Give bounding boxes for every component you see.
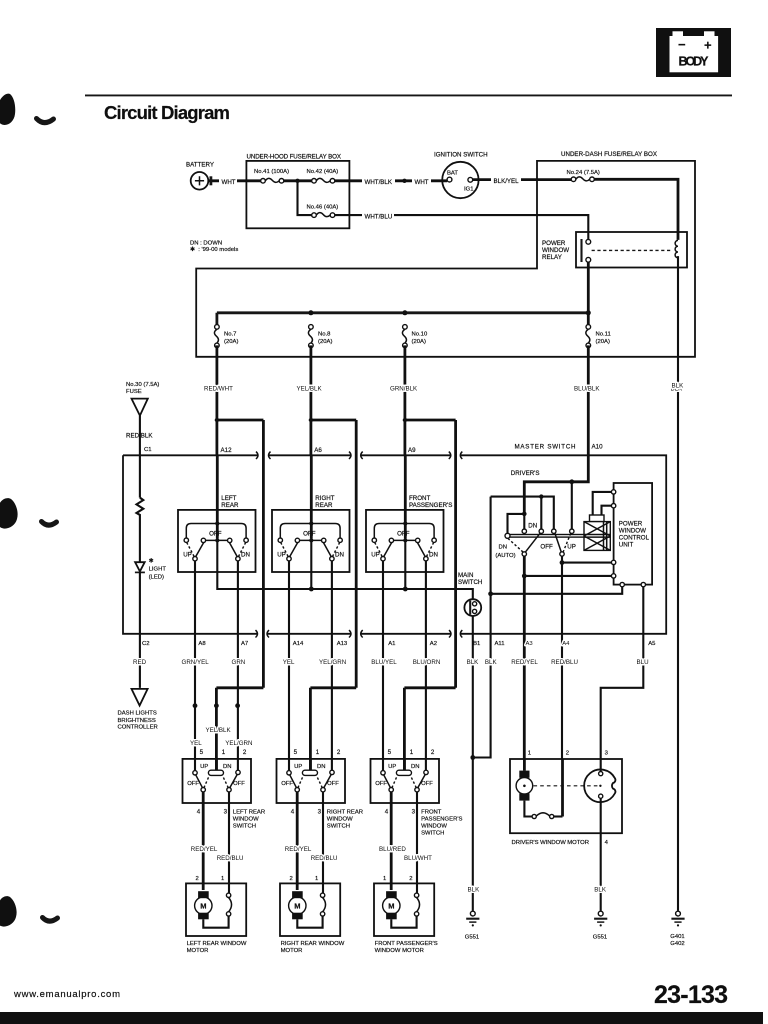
svg-text:REAR: REAR: [315, 502, 333, 509]
svg-text:POWER: POWER: [619, 521, 643, 528]
svg-text:C2: C2: [142, 641, 150, 647]
svg-text:A7: A7: [241, 641, 248, 647]
svg-text:2: 2: [196, 876, 199, 882]
svg-text:RED/YEL: RED/YEL: [285, 846, 312, 853]
svg-text:Circuit Diagram: Circuit Diagram: [104, 102, 230, 123]
svg-text:YEL/GRN: YEL/GRN: [319, 659, 346, 666]
svg-text:OFF: OFF: [540, 543, 553, 550]
svg-text:RELAY: RELAY: [542, 254, 562, 261]
svg-text:RED/WHT: RED/WHT: [204, 385, 233, 392]
svg-text:BLU/WHT: BLU/WHT: [404, 855, 432, 862]
svg-text:RED/BLU: RED/BLU: [311, 855, 338, 862]
svg-text:(20A): (20A): [318, 339, 332, 345]
svg-text:2: 2: [290, 876, 293, 882]
svg-text:2: 2: [409, 876, 412, 882]
svg-text:G402: G402: [670, 941, 684, 947]
svg-text:UP: UP: [567, 543, 576, 550]
svg-text:No.30 (7.5A): No.30 (7.5A): [126, 382, 159, 388]
svg-text:No.7: No.7: [224, 332, 236, 338]
svg-text:WHT/BLK: WHT/BLK: [365, 179, 393, 186]
svg-text:SWITCH: SWITCH: [458, 579, 482, 586]
svg-text:(AUTO): (AUTO): [495, 553, 515, 559]
svg-text:BLK: BLK: [485, 659, 498, 666]
svg-text:RIGHT REAR WINDOW: RIGHT REAR WINDOW: [281, 941, 345, 947]
svg-text:WHT: WHT: [415, 179, 429, 186]
svg-text:1: 1: [221, 876, 224, 882]
svg-text:No.41 (100A): No.41 (100A): [254, 169, 289, 175]
svg-text:1: 1: [315, 876, 318, 882]
svg-text:RED/YEL: RED/YEL: [511, 659, 538, 666]
svg-text:RED/YEL: RED/YEL: [191, 846, 218, 853]
svg-text:GRN: GRN: [232, 659, 246, 666]
svg-text:YEL/BLK: YEL/BLK: [206, 727, 232, 734]
svg-text:BLU/YEL: BLU/YEL: [371, 659, 397, 666]
svg-text:3: 3: [605, 750, 609, 756]
svg-text:REAR: REAR: [221, 502, 239, 509]
svg-text:A10: A10: [592, 443, 604, 450]
svg-text:WHT/BLU: WHT/BLU: [365, 213, 393, 220]
svg-text:(20A): (20A): [412, 339, 426, 345]
svg-text:LIGHT: LIGHT: [149, 567, 167, 573]
svg-text:YEL/BLK: YEL/BLK: [297, 385, 323, 392]
svg-text:UNIT: UNIT: [619, 542, 634, 549]
svg-text:RED: RED: [133, 659, 147, 666]
svg-text:DRIVER'S WINDOW MOTOR: DRIVER'S WINDOW MOTOR: [512, 840, 590, 846]
svg-text:BAT: BAT: [447, 170, 458, 176]
svg-text:SWITCH: SWITCH: [327, 824, 350, 830]
svg-text:WINDOW: WINDOW: [421, 824, 447, 830]
svg-text:RED/BLU: RED/BLU: [217, 855, 244, 862]
svg-text:A11: A11: [495, 641, 505, 647]
svg-text:YEL: YEL: [190, 740, 202, 747]
svg-text:No.24 (7.5A): No.24 (7.5A): [567, 170, 600, 176]
svg-text:WINDOW: WINDOW: [619, 528, 646, 535]
svg-text:(LED): (LED): [149, 575, 164, 581]
svg-text:BLU: BLU: [637, 659, 649, 666]
svg-text:MOTOR: MOTOR: [281, 948, 303, 954]
svg-text:A6: A6: [314, 447, 322, 454]
svg-text:UNDER-HOOD FUSE/RELAY BOX: UNDER-HOOD FUSE/RELAY BOX: [247, 154, 342, 161]
svg-text:RED/BLU: RED/BLU: [551, 659, 578, 666]
svg-text:BLU/BLK: BLU/BLK: [574, 385, 600, 392]
svg-text:RED/BLK: RED/BLK: [126, 433, 153, 440]
svg-text:DN: DN: [528, 522, 537, 529]
svg-text:C1: C1: [144, 447, 152, 453]
svg-text:✱ : '99-00 models: ✱ : '99-00 models: [190, 246, 238, 253]
svg-text:1: 1: [383, 876, 386, 882]
svg-text:BODY: BODY: [679, 55, 710, 69]
svg-text:2: 2: [566, 750, 569, 756]
svg-text:G551: G551: [593, 935, 607, 941]
svg-text:No.10: No.10: [412, 332, 428, 338]
svg-text:MOTOR: MOTOR: [187, 948, 209, 954]
svg-text:CONTROLLER: CONTROLLER: [118, 725, 158, 731]
svg-text:LEFT REAR WINDOW: LEFT REAR WINDOW: [187, 941, 247, 947]
svg-text:WHT: WHT: [222, 179, 236, 186]
svg-text:No.11: No.11: [596, 332, 611, 338]
svg-text:POWER: POWER: [542, 240, 566, 247]
svg-text:BLK: BLK: [468, 886, 481, 893]
svg-text:A12: A12: [221, 447, 233, 454]
svg-text:DRIVER'S: DRIVER'S: [511, 470, 540, 477]
svg-text:YEL/GRN: YEL/GRN: [225, 740, 252, 747]
svg-text:−: −: [678, 37, 686, 52]
svg-text:✱: ✱: [149, 558, 154, 565]
svg-text:BLK/YEL: BLK/YEL: [494, 178, 520, 185]
svg-text:DASH LIGHTS: DASH LIGHTS: [118, 711, 157, 717]
svg-text:A3: A3: [526, 641, 534, 647]
svg-text:BATTERY: BATTERY: [186, 162, 214, 169]
svg-text:www.emanualpro.com: www.emanualpro.com: [13, 989, 120, 1000]
svg-text:RIGHT REAR: RIGHT REAR: [327, 810, 363, 816]
svg-text:BLK: BLK: [594, 886, 607, 893]
svg-text:A13: A13: [337, 641, 348, 647]
svg-text:A2: A2: [430, 641, 437, 647]
svg-text:GRN/YEL: GRN/YEL: [182, 659, 210, 666]
svg-text:No.46 (40A): No.46 (40A): [307, 204, 339, 210]
svg-text:WINDOW: WINDOW: [233, 817, 259, 823]
svg-text:BLK: BLK: [672, 383, 685, 390]
svg-text:IGNITION SWITCH: IGNITION SWITCH: [434, 152, 488, 159]
svg-text:DN: DN: [499, 544, 508, 550]
svg-text:WINDOW MOTOR: WINDOW MOTOR: [375, 948, 424, 954]
svg-text:SWITCH: SWITCH: [421, 831, 444, 837]
svg-text:(20A): (20A): [224, 339, 238, 345]
svg-text:4: 4: [605, 840, 609, 846]
svg-text:BLK: BLK: [467, 659, 480, 666]
svg-text:PASSENGER'S: PASSENGER'S: [409, 502, 452, 509]
svg-text:A9: A9: [408, 447, 416, 454]
svg-text:1: 1: [528, 750, 531, 756]
svg-text:WINDOW: WINDOW: [327, 817, 353, 823]
svg-text:UNDER-DASH FUSE/RELAY BOX: UNDER-DASH FUSE/RELAY BOX: [561, 151, 657, 158]
svg-text:No.42 (40A): No.42 (40A): [307, 169, 339, 175]
svg-text:GRN/BLK: GRN/BLK: [390, 385, 418, 392]
svg-text:A8: A8: [198, 641, 206, 647]
svg-text:B1: B1: [473, 641, 480, 647]
svg-text:No.8: No.8: [318, 332, 331, 338]
svg-text:SWITCH: SWITCH: [233, 824, 256, 830]
svg-text:IG1: IG1: [464, 187, 474, 193]
svg-text:CONTROL: CONTROL: [619, 535, 650, 542]
svg-text:23-133: 23-133: [654, 981, 728, 1009]
svg-text:G551: G551: [465, 935, 479, 941]
svg-text:FRONT: FRONT: [421, 810, 442, 816]
svg-text:LEFT REAR: LEFT REAR: [233, 810, 265, 816]
svg-text:PASSENGER'S: PASSENGER'S: [421, 817, 462, 823]
svg-text:G401: G401: [670, 934, 684, 940]
svg-text:DN : DOWN: DN : DOWN: [190, 240, 222, 246]
svg-text:BLU/ORN: BLU/ORN: [413, 659, 441, 666]
svg-text:FRONT PASSENGER'S: FRONT PASSENGER'S: [375, 941, 438, 947]
svg-text:YEL: YEL: [283, 659, 295, 666]
svg-text:A4: A4: [562, 641, 570, 647]
svg-text:A1: A1: [388, 641, 395, 647]
svg-text:MASTER SWITCH: MASTER SWITCH: [515, 443, 576, 450]
svg-text:BLU/RED: BLU/RED: [379, 846, 406, 853]
svg-text:WINDOW: WINDOW: [542, 247, 569, 254]
svg-text:FUSE: FUSE: [126, 389, 142, 395]
svg-text:A14: A14: [293, 641, 304, 647]
svg-text:(20A): (20A): [596, 339, 610, 345]
svg-text:+: +: [704, 38, 712, 53]
svg-text:BRIGHTNESS: BRIGHTNESS: [118, 718, 156, 724]
svg-text:A5: A5: [648, 641, 656, 647]
